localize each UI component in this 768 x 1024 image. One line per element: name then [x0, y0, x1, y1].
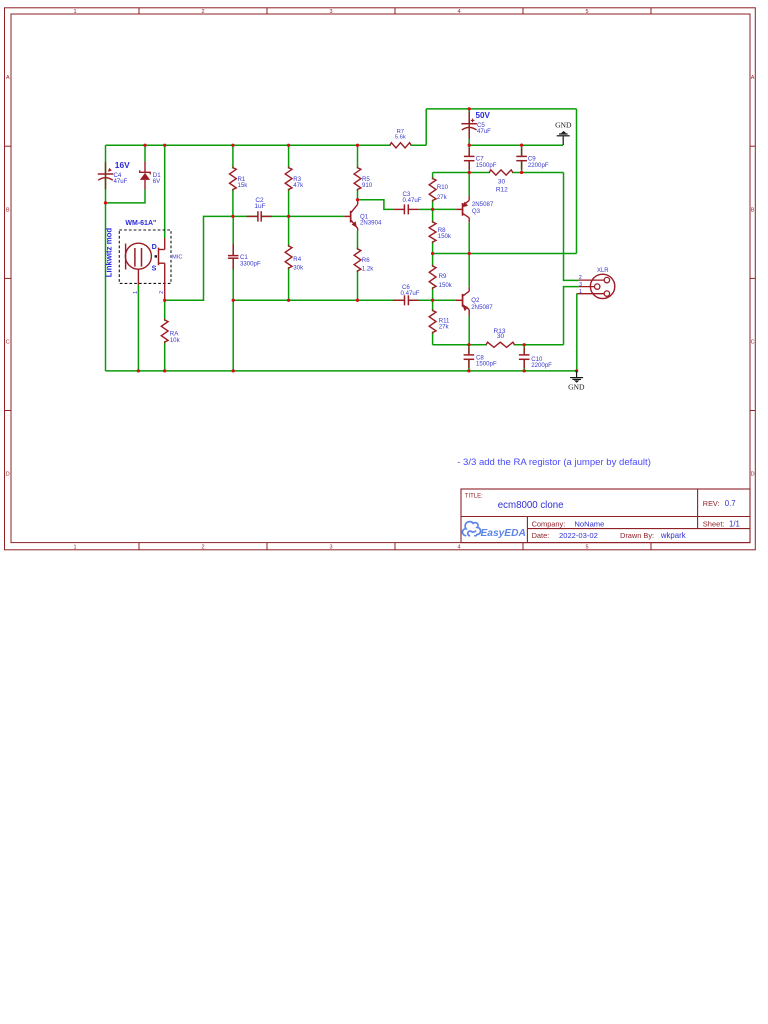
- sheet border frame: [5, 8, 756, 551]
- resistor R12 30: [489, 170, 513, 194]
- svg-text:R12: R12: [496, 187, 508, 194]
- svg-text:Company:: Company:: [532, 519, 566, 528]
- resistor R1 15k: [230, 167, 249, 191]
- wire R5 branch: [357, 145, 359, 200]
- svg-text:XLR: XLR: [597, 268, 609, 274]
- junction Q3 collector: [468, 252, 471, 255]
- svg-text:150k: 150k: [439, 282, 453, 289]
- wire C10 branch: [523, 345, 525, 371]
- svg-text:Q3: Q3: [472, 208, 481, 215]
- svg-text:GND: GND: [568, 383, 585, 392]
- junction C7 bottom: [468, 171, 471, 174]
- wire R3 branch: [288, 145, 290, 216]
- date row: [532, 531, 686, 540]
- wire D1 top lead: [144, 145, 146, 161]
- svg-text:R9: R9: [439, 273, 447, 280]
- junction Q1 collector node: [356, 198, 359, 201]
- svg-text:wkpark: wkpark: [660, 531, 686, 540]
- svg-text:16V: 16V: [115, 160, 130, 170]
- junction R1 top: [231, 144, 234, 147]
- junction D1 top: [143, 144, 146, 147]
- wire C5 branch: [468, 109, 470, 145]
- junction R4 bottom: [287, 299, 290, 302]
- wire C8 branch: [468, 345, 470, 371]
- resistor R13 30: [486, 328, 515, 348]
- connector XLR: [578, 268, 615, 299]
- svg-text:TITLE:: TITLE:: [465, 493, 483, 499]
- svg-text:- 3/3 add the RA registor (a j: - 3/3 add the RA registor (a jumper by d…: [457, 457, 651, 468]
- svg-text:Date:: Date:: [532, 531, 550, 540]
- wire C1 branch: [232, 216, 234, 300]
- svg-text:15k: 15k: [238, 182, 249, 189]
- wire Q1 collector node to C3: [358, 200, 395, 210]
- label Linkwitz mod: [105, 228, 114, 278]
- wire gnd top feed: [469, 144, 563, 146]
- svg-text:27k: 27k: [439, 324, 450, 331]
- svg-text:0.47uF: 0.47uF: [401, 290, 420, 297]
- wire R1 branch: [232, 145, 234, 216]
- junction R1 bottom: [231, 215, 234, 218]
- svg-text:EasyEDA: EasyEDA: [481, 528, 526, 539]
- wire right supply drop: [576, 109, 578, 254]
- junction C10 top: [523, 343, 526, 346]
- note text: [457, 457, 651, 468]
- svg-text:2N5087: 2N5087: [471, 304, 493, 311]
- svg-text:27k: 27k: [437, 194, 448, 201]
- svg-text:Drawn By:: Drawn By:: [620, 531, 654, 540]
- svg-text:2: 2: [579, 275, 582, 281]
- svg-text:C: C: [751, 339, 755, 345]
- title label: [465, 493, 483, 499]
- svg-text:2022-03-02: 2022-03-02: [559, 531, 598, 540]
- wire left rail: [105, 145, 107, 371]
- wire top rail 16V: [106, 144, 427, 146]
- junction C4 bottom: [104, 201, 107, 204]
- svg-text:47k: 47k: [293, 182, 304, 189]
- wire mic pin1 down: [137, 285, 139, 371]
- capacitor C7 1500pF: [463, 148, 496, 170]
- transistor Q3 2N5087: [456, 196, 494, 222]
- wire C4-D1 bottom: [106, 190, 146, 203]
- svg-text:D: D: [152, 242, 157, 251]
- wire Q2 collector up: [468, 254, 470, 287]
- capacitor C1 3300pF: [227, 244, 261, 270]
- svg-text:3: 3: [329, 545, 332, 551]
- wire R10 R8 branch: [432, 173, 434, 254]
- resistor R11 27k: [429, 309, 450, 333]
- junction GND bottom node: [575, 369, 578, 372]
- wire collector bus y253: [433, 253, 577, 255]
- wire bottom ground rail: [106, 370, 577, 372]
- resistor R6 1.2k: [354, 248, 374, 273]
- junction C9 bottom: [520, 171, 523, 174]
- junction mic drain rail: [163, 144, 166, 147]
- resistor RA 10k: [161, 319, 180, 344]
- title text ecm8000 clone: [498, 500, 564, 511]
- rev label: [703, 499, 736, 508]
- junction C5 top: [468, 107, 471, 110]
- capacitor C9 2200pF: [516, 148, 549, 170]
- resistor R7 5.6k: [390, 129, 411, 148]
- wire output pin2: [564, 173, 579, 281]
- capacitor C6 0.47uF: [393, 284, 420, 306]
- svg-text:Sheet:: Sheet:: [703, 519, 725, 528]
- svg-text:GND: GND: [555, 121, 572, 130]
- svg-text:3300pF: 3300pF: [240, 260, 261, 267]
- svg-text:WM-61A": WM-61A": [125, 220, 156, 227]
- svg-text:B: B: [751, 207, 755, 213]
- capacitor C3 0.47uF: [394, 191, 422, 215]
- wire Q3 collector down: [468, 222, 470, 253]
- svg-text:150k: 150k: [438, 233, 452, 240]
- svg-text:0.7: 0.7: [725, 499, 736, 508]
- junction C8 bottom: [467, 369, 470, 372]
- wire output bus y344 (R13): [433, 344, 564, 346]
- svg-text:5: 5: [585, 9, 588, 15]
- svg-text:910: 910: [362, 182, 373, 189]
- wire output pin3: [564, 287, 579, 345]
- junction R6 bottom: [356, 299, 359, 302]
- svg-text:2200pF: 2200pF: [531, 362, 552, 369]
- svg-text:3: 3: [579, 282, 582, 288]
- wire 50V rail: [426, 108, 576, 110]
- junction R8 bottom: [431, 252, 434, 255]
- svg-text:2: 2: [201, 545, 204, 551]
- svg-text:A: A: [6, 75, 10, 81]
- net label 16V: [115, 160, 130, 170]
- svg-text:1.2k: 1.2k: [362, 266, 374, 273]
- wire R9 branch: [432, 254, 434, 301]
- junction C1 bottom: [232, 299, 235, 302]
- ground GND bottom: [568, 371, 585, 392]
- svg-text:2: 2: [159, 291, 165, 294]
- junction C5 bottom: [468, 144, 471, 147]
- svg-text:1: 1: [133, 291, 139, 294]
- svg-text:5: 5: [585, 545, 588, 551]
- svg-text:A: A: [751, 75, 755, 81]
- net label 50V: [476, 111, 491, 120]
- svg-text:1500pF: 1500pF: [476, 162, 497, 169]
- svg-text:30k: 30k: [293, 265, 304, 272]
- svg-text:NoName: NoName: [574, 519, 604, 528]
- company row: [532, 519, 605, 528]
- junction C1 drop bottom: [232, 369, 235, 372]
- svg-text:S: S: [152, 263, 157, 272]
- svg-text:4: 4: [457, 545, 460, 551]
- junction R3 top: [287, 144, 290, 147]
- wire C7 branch: [468, 145, 470, 172]
- wire C3 to R10 node: [419, 208, 433, 210]
- svg-text:1uF: 1uF: [254, 203, 265, 210]
- wire R12 bus y172: [433, 172, 564, 174]
- title block grid: [461, 489, 750, 543]
- wire pin1 to ground: [576, 294, 579, 371]
- svg-text:1500pF: 1500pF: [476, 361, 497, 368]
- svg-text:2: 2: [201, 9, 204, 15]
- capacitor C8 1500pF: [463, 348, 497, 369]
- junction RA bottom: [163, 369, 166, 372]
- svg-text:C: C: [6, 339, 10, 345]
- svg-text:0.47uF: 0.47uF: [403, 197, 422, 204]
- svg-text:5.6k: 5.6k: [395, 134, 406, 140]
- junction mic pin2: [163, 299, 166, 302]
- transistor Q2 2N5087: [456, 287, 493, 316]
- resistor R4 30k: [285, 245, 304, 272]
- wire mic drain drop: [164, 145, 166, 238]
- svg-text:6V: 6V: [153, 178, 161, 185]
- resistor R8 150k: [429, 221, 452, 243]
- svg-text:1/1: 1/1: [729, 519, 740, 528]
- capacitor C2 1uF: [247, 197, 272, 222]
- wire riser to 50V rail: [425, 109, 427, 145]
- svg-text:MIC: MIC: [172, 254, 182, 260]
- wire R4 branch: [288, 216, 290, 300]
- resistor R3 47k: [285, 167, 304, 191]
- wire C9 branch: [521, 145, 523, 172]
- wire Q1 emitter to R6: [357, 231, 359, 301]
- resistor R9 150k: [429, 265, 453, 289]
- svg-text:B: B: [6, 207, 10, 213]
- svg-text:30: 30: [497, 333, 505, 340]
- svg-text:47uF: 47uF: [114, 178, 128, 185]
- EasyEDA logo: [462, 522, 525, 539]
- svg-text:REV:: REV:: [703, 499, 720, 508]
- junction R9 bottom: [431, 299, 434, 302]
- label WM-61A: [125, 220, 156, 227]
- junction Q2 emitter node: [467, 343, 470, 346]
- junction R10 bottom node: [431, 208, 434, 211]
- capacitor C10 2200pF: [518, 348, 552, 370]
- svg-text:10k: 10k: [170, 337, 181, 344]
- svg-text:R10: R10: [437, 184, 449, 191]
- wire RA branch: [164, 300, 166, 371]
- resistor R5 910: [354, 167, 373, 191]
- svg-text:2N3904: 2N3904: [360, 220, 382, 227]
- svg-text:1: 1: [73, 545, 76, 551]
- svg-text:Linkwitz mod: Linkwitz mod: [105, 228, 114, 278]
- svg-text:R6: R6: [362, 257, 370, 264]
- svg-text:1: 1: [73, 9, 76, 15]
- junction R3 bottom: [287, 215, 290, 218]
- svg-text:2200pF: 2200pF: [528, 162, 549, 169]
- transistor Q1 2N3904: [344, 200, 382, 231]
- svg-text:D: D: [6, 472, 10, 478]
- capacitor C5 47uF: [461, 112, 491, 139]
- ground GND top: [555, 121, 572, 146]
- wire node C3 to Q3 base: [433, 208, 457, 210]
- junction mic pin1 bottom: [137, 369, 140, 372]
- junction C9 top: [520, 144, 523, 147]
- zener diode D1 6V: [140, 162, 162, 190]
- capacitor C4 47uF: [98, 162, 128, 189]
- resistor R10 27k: [429, 177, 448, 201]
- svg-text:ecm8000 clone: ecm8000 clone: [498, 500, 564, 511]
- wire mic pin2 to base bus: [165, 216, 345, 300]
- svg-text:47uF: 47uF: [477, 128, 491, 135]
- microphone MIC WM-61A capsule: [125, 238, 182, 300]
- svg-text:4: 4: [457, 9, 460, 15]
- dashed box Linkwitz mod: [119, 230, 171, 283]
- wire Q2 emitter down: [468, 316, 470, 345]
- wire R11 branch: [432, 300, 434, 345]
- svg-text:30: 30: [498, 178, 506, 185]
- wire signal bus y300: [233, 299, 456, 301]
- svg-text:1: 1: [579, 289, 582, 295]
- svg-text:3: 3: [329, 9, 332, 15]
- sheet label: [703, 519, 740, 528]
- svg-text:D: D: [751, 472, 755, 478]
- wire C1 bottom drop: [232, 300, 234, 371]
- svg-text:50V: 50V: [476, 111, 491, 120]
- wire Q3 emitter up: [468, 173, 470, 197]
- svg-text:R4: R4: [293, 256, 301, 263]
- junction R5 top: [356, 144, 359, 147]
- junction C10 bottom: [523, 369, 526, 372]
